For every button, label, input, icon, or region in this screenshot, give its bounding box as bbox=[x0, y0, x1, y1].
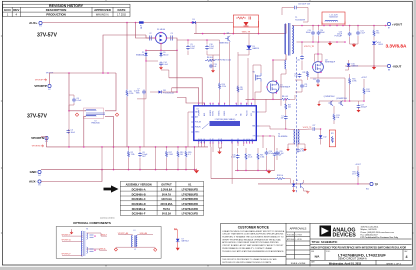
svg-text:LT4276BIUFD, LT4321IUF: LT4276BIUFD, LT4321IUF bbox=[338, 252, 386, 257]
svg-text:24V/0.95A: 24V/0.95A bbox=[160, 202, 172, 206]
staircase bus wires to IC bbox=[169, 78, 202, 106]
capacitor C3 bbox=[171, 36, 173, 41]
wire columns into IC top bbox=[228, 42, 230, 106]
chassis symbol right of T2 bbox=[115, 113, 118, 116]
resistor R14 bbox=[219, 40, 221, 83]
svg-text:CUSTOMER NOTICE: CUSTOMER NOTICE bbox=[238, 225, 269, 229]
svg-text:T3: T3 bbox=[86, 229, 88, 231]
svg-text:3.3V/6.8A: 3.3V/6.8A bbox=[161, 187, 172, 191]
red option box feedback bbox=[329, 130, 335, 147]
wire T4 primary top bbox=[286, 128, 295, 131]
svg-text:47.5k: 47.5k bbox=[222, 86, 226, 88]
svg-text:12V/1.9A: 12V/1.9A bbox=[161, 197, 172, 201]
svg-text:ASSEMBLY VERSION: ASSEMBLY VERSION bbox=[126, 183, 152, 187]
svg-text:VPORTN_F: VPORTN_F bbox=[62, 254, 71, 256]
transformer T2 common-mode choke bbox=[86, 110, 96, 111]
mosfet Q1 main switch bbox=[267, 81, 279, 93]
svg-text:VPORTP_A: VPORTP_A bbox=[62, 239, 72, 242]
resistor R3 bbox=[126, 89, 128, 97]
ground opto left bbox=[292, 190, 296, 192]
capacitor C21 bbox=[357, 26, 359, 31]
title block outline bbox=[221, 223, 413, 265]
wire long fb bus bbox=[211, 178, 275, 180]
svg-text:ECO: ECO bbox=[4, 8, 11, 12]
U1 bottom pins bbox=[199, 140, 253, 143]
wire x69 down to T2 bbox=[69, 73, 86, 111]
svg-text:LT4276AIUFD: LT4276AIUFD bbox=[182, 207, 199, 211]
svg-text:LT4276BIUFD: LT4276BIUFD bbox=[182, 202, 199, 206]
wire branch down from AUX+ to R3 bbox=[126, 23, 128, 90]
svg-text:E1: E1 bbox=[39, 26, 41, 28]
svg-text:SENSE-: SENSE- bbox=[224, 110, 226, 116]
mosfet M1 bbox=[256, 75, 258, 81]
svg-text:TECHNOLOGY APPLICATIONS ENGINE: TECHNOLOGY APPLICATIONS ENGINEERING FOR … bbox=[222, 250, 284, 253]
svg-text:OUTPUT: OUTPUT bbox=[161, 183, 172, 187]
svg-text:LT4276BIUFD: LT4276BIUFD bbox=[182, 192, 199, 196]
svg-text:174k: 174k bbox=[131, 154, 135, 156]
svg-text:VPORTP: VPORTP bbox=[34, 84, 47, 88]
svg-text:D1 HD04: D1 HD04 bbox=[157, 29, 166, 31]
svg-text:PGOOD: PGOOD bbox=[246, 109, 248, 116]
capacitor C27 bbox=[313, 127, 315, 130]
svg-text:L. HTOE: L. HTOE bbox=[296, 239, 302, 241]
optional components box bbox=[56, 227, 161, 259]
optional wires right bbox=[87, 233, 107, 236]
svg-text:220uF: 220uF bbox=[320, 32, 326, 34]
Analog Devices logo bbox=[320, 226, 332, 237]
U1 right pins bbox=[256, 112, 259, 136]
svg-text:L2: L2 bbox=[134, 249, 136, 251]
svg-text:POE-(P): POE-(P) bbox=[195, 127, 201, 129]
svg-text:SiR878ADP: SiR878ADP bbox=[280, 86, 291, 89]
diode D2 snubber bbox=[244, 22, 249, 26]
terminal E3 VPORTN bbox=[45, 136, 48, 139]
transformer T2 outline bbox=[84, 108, 104, 119]
resistor R2 bbox=[128, 147, 130, 150]
svg-text:LED8: LED8 bbox=[378, 44, 383, 46]
wire IC left pins to rail bbox=[188, 112, 191, 147]
svg-text:0.1uF: 0.1uF bbox=[231, 157, 235, 159]
capacitor C22 bbox=[317, 79, 319, 80]
LED D12 bbox=[320, 129, 322, 135]
svg-text:E7: E7 bbox=[388, 28, 390, 30]
svg-text:1uF: 1uF bbox=[304, 86, 307, 88]
svg-text:Wednesday, April 01, 2015: Wednesday, April 01, 2015 bbox=[329, 261, 362, 265]
diode D11 bbox=[159, 91, 162, 94]
svg-text:SCALE = NONE: SCALE = NONE bbox=[291, 262, 306, 265]
svg-text:953: 953 bbox=[376, 33, 379, 35]
svg-text:K. HTOE: K. HTOE bbox=[296, 234, 302, 236]
svg-text:1630 McCarthy Blvd.: 1630 McCarthy Blvd. bbox=[361, 226, 379, 229]
wire secondary to output rail bbox=[292, 25, 387, 27]
wire T2 bottom-right column bbox=[105, 116, 114, 146]
svg-text:TITLE: SCHEMATIC: TITLE: SCHEMATIC bbox=[312, 240, 338, 244]
transistor Q4 bbox=[227, 36, 229, 40]
diode D10 bbox=[347, 64, 351, 67]
svg-text:41.2k: 41.2k bbox=[248, 157, 252, 159]
svg-text:VBB: VBB bbox=[252, 126, 255, 128]
svg-text:OPTIONAL COMPONENTS: OPTIONAL COMPONENTS bbox=[73, 221, 111, 225]
svg-text:BAT760-7: BAT760-7 bbox=[182, 240, 190, 243]
capacitor C6 bbox=[73, 98, 75, 100]
wire columns between rails bbox=[101, 147, 103, 170]
svg-text:0.1: 0.1 bbox=[188, 154, 191, 156]
svg-text:VERIFY PROPER AND RELIABLE OPE: VERIFY PROPER AND RELIABLE OPERATION IN … bbox=[222, 238, 281, 241]
svg-text:IC NO.: IC NO. bbox=[326, 251, 331, 253]
svg-text:BAS516: BAS516 bbox=[253, 47, 260, 50]
wire corner x103 bbox=[103, 35, 146, 73]
capacitor C9 bbox=[187, 40, 189, 45]
svg-text:174k: 174k bbox=[129, 93, 133, 95]
svg-text:VPORTP: VPORTP bbox=[35, 80, 44, 82]
svg-text:VPORTP_F: VPORTP_F bbox=[62, 234, 71, 236]
zener Z1 bbox=[145, 50, 147, 51]
wire bus below IC bbox=[235, 169, 275, 171]
wire Z1 column down bbox=[145, 57, 147, 99]
ground -VOUT bbox=[372, 67, 376, 70]
svg-text:10k: 10k bbox=[336, 117, 339, 119]
capacitor C1 bbox=[285, 120, 287, 129]
svg-text:E4: E4 bbox=[38, 175, 40, 177]
resistor R20 bbox=[185, 147, 187, 150]
revision history table bbox=[3, 4, 130, 16]
svg-text:RUN: RUN bbox=[221, 139, 223, 142]
svg-text:SUPPLIED FOR USE WITH LINEAR T: SUPPLIED FOR USE WITH LINEAR TECHNOLOGY … bbox=[222, 261, 272, 264]
table pointer arrow bbox=[104, 185, 119, 192]
test point E11 TP bbox=[370, 182, 373, 185]
svg-text:E2: E2 bbox=[48, 89, 50, 91]
diode D3 bbox=[192, 21, 195, 24]
wire TP net bbox=[258, 183, 370, 185]
wire Q2 gate feedback bbox=[344, 78, 346, 101]
wire T2 bottom-left from VPORTN rail bbox=[84, 116, 86, 146]
U1 left pins bbox=[191, 112, 194, 132]
terminal E7 +VOUT bbox=[387, 22, 390, 25]
svg-text:VOUTS_TR: VOUTS_TR bbox=[303, 127, 312, 129]
svg-text:100uF: 100uF bbox=[306, 32, 312, 34]
resistor R28 bbox=[275, 177, 285, 179]
mosfet Q2 sync rectifier bbox=[313, 62, 324, 73]
wire bridge left feed bbox=[146, 35, 156, 38]
svg-text:N/A: N/A bbox=[315, 255, 320, 259]
svg-text:1.7.2015: 1.7.2015 bbox=[117, 14, 127, 16]
ground output mid bbox=[328, 43, 332, 46]
resistor R12 bbox=[363, 79, 365, 88]
svg-text:TP: TP bbox=[375, 182, 379, 186]
LED D4 bbox=[372, 42, 376, 45]
capacitor C17 bbox=[358, 101, 360, 104]
capacitor C28 bbox=[297, 144, 299, 148]
svg-text:37V-57V: 37V-57V bbox=[37, 32, 57, 38]
svg-text:5.36k: 5.36k bbox=[260, 157, 264, 159]
terminal E1 AUX+ bbox=[39, 21, 42, 24]
resistor R23 bbox=[257, 148, 259, 153]
wire bjt bus bbox=[322, 100, 364, 102]
optional wires left bbox=[62, 235, 82, 237]
resistor R27 bbox=[285, 110, 287, 116]
wire IC right pins bbox=[259, 99, 266, 112]
ground opto right bbox=[306, 192, 310, 194]
svg-text:5V/7A: 5V/7A bbox=[163, 207, 170, 211]
svg-text:VINS_AM: VINS_AM bbox=[140, 232, 148, 235]
svg-text:AUX-: AUX- bbox=[29, 180, 37, 184]
wire C9 C10 top rail bbox=[177, 39, 220, 41]
capacitor C23 bbox=[349, 26, 351, 32]
svg-text:1uF: 1uF bbox=[294, 76, 297, 78]
capacitor C24 bbox=[318, 26, 320, 31]
capacitor C2 bbox=[150, 36, 152, 41]
ground below C17 bbox=[357, 110, 361, 112]
svg-text:SMAJ58A: SMAJ58A bbox=[136, 53, 145, 56]
resistor R22 bbox=[245, 148, 247, 153]
svg-text:C22: C22 bbox=[313, 79, 316, 81]
svg-text:VINS_TR: VINS_TR bbox=[242, 32, 251, 34]
svg-text:APPLICATION. COMPONENT SUBSTI: APPLICATION. COMPONENT SUBSTITUTION AND … bbox=[222, 241, 279, 244]
svg-text:SHEET 1 OF 3: SHEET 1 OF 3 bbox=[386, 263, 401, 265]
svg-text:R28 10k: R28 10k bbox=[277, 175, 283, 177]
wire VPORTP rail y73 bbox=[50, 72, 117, 74]
resistor R9 bbox=[237, 86, 239, 93]
svg-text:DC2048A-A: DC2048A-A bbox=[132, 187, 146, 191]
svg-text:49.9: 49.9 bbox=[352, 174, 356, 176]
wire primary top to transformer bbox=[285, 24, 287, 34]
T1 secondary winding bbox=[292, 26, 293, 54]
svg-text:E11: E11 bbox=[366, 189, 369, 191]
svg-text:VPORTN: VPORTN bbox=[32, 146, 41, 148]
svg-text:WAUNG N.: WAUNG N. bbox=[96, 12, 109, 16]
svg-text:DEVICES: DEVICES bbox=[333, 233, 357, 239]
capacitor C29 bbox=[274, 136, 276, 152]
capacitor C15 bbox=[237, 148, 239, 154]
svg-text:E8: E8 bbox=[388, 70, 390, 72]
ground below C21/C23 bbox=[350, 43, 358, 45]
wire lower output rail y42 bbox=[297, 41, 346, 43]
svg-text:REV: REV bbox=[13, 8, 19, 12]
wire primary rail y33.6 bbox=[194, 33, 286, 35]
svg-text:750315839: 750315839 bbox=[295, 19, 306, 21]
resistor R11 bbox=[306, 71, 308, 77]
resistor R4 bbox=[205, 59, 215, 61]
terminal E4 GND bbox=[38, 170, 41, 173]
svg-text:4: 4 bbox=[406, 255, 408, 259]
svg-text:+VOUT: +VOUT bbox=[355, 164, 362, 166]
wire M1 connections bbox=[253, 65, 261, 99]
svg-text:37V-57V: 37V-57V bbox=[27, 114, 47, 120]
wire T4 secondary top bbox=[298, 128, 312, 131]
svg-text:+VOUT: +VOUT bbox=[361, 77, 368, 79]
ground bus below IC bbox=[267, 171, 271, 174]
assembly version table bbox=[120, 182, 204, 216]
optional choke wires bbox=[118, 234, 133, 236]
svg-text:AUX+: AUX+ bbox=[29, 21, 38, 25]
svg-text:DC2048A-D: DC2048A-D bbox=[132, 202, 146, 206]
wire D4 down to -VOUT rail bbox=[373, 45, 375, 67]
capacitor C26 bbox=[299, 73, 301, 74]
svg-text:744355147: 744355147 bbox=[329, 17, 338, 19]
svg-text:4.99k: 4.99k bbox=[352, 81, 356, 83]
svg-text:R21: R21 bbox=[331, 133, 334, 135]
svg-text:MMBT3904: MMBT3904 bbox=[220, 43, 229, 45]
svg-text:SENSE+: SENSE+ bbox=[218, 110, 220, 116]
svg-text:Q3 MMBT3904: Q3 MMBT3904 bbox=[336, 98, 347, 100]
svg-text:VOUTS_TR: VOUTS_TR bbox=[304, 46, 315, 48]
svg-text:D3: D3 bbox=[192, 19, 194, 21]
svg-text:R8 0.05: R8 0.05 bbox=[282, 96, 288, 98]
wire Q2 source down bbox=[317, 72, 319, 78]
wire AUX- to GND rail bbox=[41, 170, 102, 182]
diode D5 bbox=[159, 53, 162, 56]
svg-text:PE-68386NL: PE-68386NL bbox=[278, 136, 288, 138]
svg-text:3.3V/6.8A: 3.3V/6.8A bbox=[386, 44, 407, 49]
svg-text:C27: C27 bbox=[312, 125, 315, 127]
wire GND rail bbox=[41, 169, 197, 171]
svg-text:0.1uF: 0.1uF bbox=[76, 100, 82, 102]
inductor L1 bbox=[322, 12, 345, 24]
svg-text:APPROVED: APPROVED bbox=[94, 8, 112, 12]
svg-text:PRODUCTION: PRODUCTION bbox=[46, 12, 65, 16]
op-amp U1 LT4276B main IC bbox=[194, 106, 256, 141]
wire VPORTN terminal to rail bbox=[41, 137, 46, 147]
capacitor C11 aux bbox=[301, 84, 303, 85]
svg-text:C3: C3 bbox=[170, 33, 172, 35]
svg-text:SIZE: SIZE bbox=[311, 251, 314, 253]
svg-text:C25: C25 bbox=[297, 60, 300, 62]
svg-text:D12: D12 bbox=[323, 137, 326, 139]
resistor R19 bbox=[177, 147, 179, 150]
svg-text:442: 442 bbox=[288, 107, 291, 109]
page edge shading bbox=[413, 0, 416, 270]
wire Q1 source to sense bbox=[272, 93, 274, 99]
wire -VOUT rail bbox=[345, 65, 387, 67]
snubber box R7 C4 D2 bbox=[233, 15, 258, 27]
svg-text:SS: SS bbox=[218, 139, 220, 141]
svg-text:-VOUT: -VOUT bbox=[392, 64, 402, 68]
terminal E2 VPORTP bbox=[48, 84, 51, 87]
svg-text:VPORTP_AM: VPORTP_AM bbox=[118, 232, 129, 235]
svg-text:ITH: ITH bbox=[253, 136, 255, 138]
svg-text:LINEAR TECHNOLOGY HAS MADE A B: LINEAR TECHNOLOGY HAS MADE A BEST EFFORT… bbox=[222, 230, 285, 233]
svg-text:ITH: ITH bbox=[210, 139, 212, 141]
svg-text:DC2048A-F: DC2048A-F bbox=[132, 212, 146, 216]
wire column x177 down bbox=[176, 50, 178, 92]
resistor R21 inside box bbox=[331, 136, 333, 143]
resistor R13 bbox=[333, 106, 335, 114]
isolation barrier dashed line bbox=[296, 57, 298, 193]
wire Q1 drain from transformer bbox=[273, 54, 286, 81]
wire VPORTN long rail y147 bbox=[46, 146, 208, 148]
svg-text:DC2048A-E: DC2048A-E bbox=[132, 207, 146, 211]
wire bridge bottom down bbox=[160, 44, 162, 51]
capacitor C10 bbox=[206, 40, 208, 45]
svg-text:5V/4.7A: 5V/4.7A bbox=[162, 192, 171, 196]
svg-text:THIS CIRCUIT IS PROPRIETARY TO: THIS CIRCUIT IS PROPRIETARY TO LINEAR TE… bbox=[222, 258, 277, 261]
svg-text:2.0M: 2.0M bbox=[169, 154, 173, 156]
svg-text:HSSRC: HSSRC bbox=[213, 110, 215, 116]
ground optional bbox=[70, 232, 74, 234]
resistor R6 bbox=[373, 26, 375, 30]
svg-text:4.7nF: 4.7nF bbox=[269, 153, 273, 155]
svg-text:C18 10nF 2kV: C18 10nF 2kV bbox=[298, 4, 311, 6]
svg-text:PT4580SD-A: PT4580SD-A bbox=[163, 91, 174, 94]
svg-text:APPROVALS: APPROVALS bbox=[290, 227, 307, 231]
capacitor C5 bbox=[67, 130, 69, 131]
ground below C14 bbox=[159, 67, 163, 69]
ground symbol main input bbox=[194, 170, 199, 173]
svg-text:Q4: Q4 bbox=[227, 33, 229, 35]
svg-text:BAS516: BAS516 bbox=[352, 65, 359, 68]
transistor Q6 bbox=[340, 101, 342, 105]
terminal E8 -VOUT bbox=[387, 64, 390, 67]
svg-text:402: 402 bbox=[240, 89, 243, 91]
svg-text:DESCRIPTION: DESCRIPTION bbox=[46, 8, 67, 12]
svg-text:PM62S30: PM62S30 bbox=[91, 123, 99, 125]
T1 aux winding below bbox=[285, 60, 286, 69]
capacitor C8 bbox=[139, 147, 141, 152]
svg-text:LT4276BIUFD: LT4276BIUFD bbox=[182, 197, 199, 201]
svg-text:POE+(P): POE+(P) bbox=[195, 122, 202, 124]
wire T4 primary bottom to ground bbox=[288, 144, 295, 149]
svg-text:E5: E5 bbox=[38, 184, 40, 186]
chassis symbol left of T2 bbox=[75, 113, 78, 116]
ground IC area bbox=[217, 152, 221, 155]
svg-text:PCB DES: PCB DES bbox=[287, 234, 294, 236]
svg-text:PERFORMANCE OR RELIABILITY. C: PERFORMANCE OR RELIABILITY. CONTACT LINE… bbox=[222, 247, 272, 250]
svg-text:1uF: 1uF bbox=[281, 118, 284, 120]
wire T2 top-right to x116 bbox=[105, 73, 116, 111]
capacitor C18 top bbox=[282, 7, 294, 9]
wire Q2 drain pads up bbox=[315, 54, 323, 62]
svg-text:DEMO CIRCUIT 2048A-A: DEMO CIRCUIT 2048A-A bbox=[338, 258, 367, 261]
svg-text:C2: C2 bbox=[149, 33, 151, 35]
capacitor C14 bbox=[160, 62, 162, 63]
svg-text:LT4276BIUFD: LT4276BIUFD bbox=[182, 187, 199, 191]
svg-text:4.7nF: 4.7nF bbox=[300, 150, 304, 152]
capacitor C7 bbox=[143, 90, 145, 92]
capacitor C19 bbox=[312, 26, 314, 31]
capacitor C16 bbox=[266, 148, 268, 150]
wire AUX+ top rail bbox=[42, 22, 233, 24]
bridge rectifier D1 bbox=[156, 33, 167, 44]
svg-text:VINS_F: VINS_F bbox=[101, 234, 107, 236]
capacitor C20 bbox=[276, 148, 278, 150]
ground T4 secondary bbox=[298, 144, 305, 149]
ground top mid2 bbox=[211, 70, 215, 72]
wire bridge bottom bus bbox=[146, 49, 177, 51]
transistor Q5 bbox=[330, 101, 332, 105]
svg-text:B1100: B1100 bbox=[163, 54, 168, 56]
svg-text:DC2048A-C: DC2048A-C bbox=[132, 197, 146, 201]
svg-text:U4: U4 bbox=[296, 180, 298, 182]
wire AUX+ branch to bridge bbox=[136, 23, 156, 39]
svg-text:DC2048A-B: DC2048A-B bbox=[132, 192, 146, 196]
svg-text:1000pF: 1000pF bbox=[361, 107, 368, 109]
capacitor C25 bbox=[301, 42, 303, 55]
svg-text:LT4276B (SEE TABLE): LT4276B (SEE TABLE) bbox=[215, 118, 236, 121]
svg-text:SW+: SW+ bbox=[252, 112, 255, 114]
svg-text:VINS_A: VINS_A bbox=[99, 248, 106, 251]
fuse F1 bbox=[139, 21, 144, 23]
wire VPORTP up to rail bbox=[49, 73, 51, 84]
diode D9 bbox=[247, 46, 252, 50]
svg-text:U1: U1 bbox=[197, 109, 199, 111]
svg-text:U1: U1 bbox=[188, 183, 192, 187]
svg-text:5V/2.3A: 5V/2.3A bbox=[162, 212, 171, 216]
svg-text:L3: L3 bbox=[133, 230, 135, 232]
ground left of bjt pair bbox=[319, 101, 322, 104]
junction on AUX+ rail bbox=[126, 22, 128, 24]
svg-text:CIRCUIT BOARD LAYOUT MAY SIGNI: CIRCUIT BOARD LAYOUT MAY SIGNIFICANTLY A… bbox=[222, 244, 284, 247]
wire IC bottom pins down bbox=[199, 143, 211, 147]
